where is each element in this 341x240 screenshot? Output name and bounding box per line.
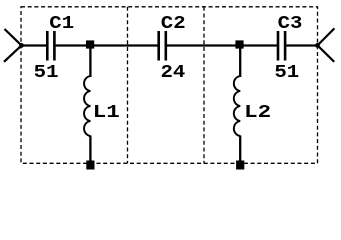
terminal node L2 bottom <box>236 161 244 170</box>
wire L1 to ground rail <box>89 136 91 162</box>
terminal node L1 bottom <box>86 161 94 170</box>
wire C2 to C3 <box>167 44 277 46</box>
wire junction 2 down <box>239 47 241 77</box>
port terminal right <box>315 28 334 61</box>
node junction 1 <box>86 40 94 48</box>
svg-text:24: 24 <box>161 63 186 83</box>
wire left port to C1 <box>22 44 47 46</box>
node junction 2 <box>235 40 243 48</box>
port terminal left <box>4 29 24 62</box>
inductor L2 <box>234 76 240 136</box>
capacitor C1 <box>47 31 54 61</box>
wire C1 to C2 <box>56 44 158 46</box>
svg-text:L2: L2 <box>244 103 271 123</box>
dashed section divider 1 <box>127 7 129 164</box>
dashed filter boundary box <box>21 7 318 164</box>
svg-text:C3: C3 <box>278 14 303 34</box>
svg-text:51: 51 <box>34 63 59 83</box>
wire C3 to right port <box>286 44 317 46</box>
capacitor C3 <box>278 31 285 61</box>
inductor L1 <box>84 76 90 136</box>
svg-text:C2: C2 <box>161 14 186 34</box>
svg-text:51: 51 <box>274 63 299 83</box>
capacitor C2 <box>159 31 166 61</box>
svg-text:L1: L1 <box>93 103 120 123</box>
svg-text:C1: C1 <box>49 14 74 34</box>
wire L2 to ground rail <box>239 136 241 162</box>
wire junction 1 down <box>89 47 91 77</box>
dashed section divider 2 <box>203 7 205 164</box>
